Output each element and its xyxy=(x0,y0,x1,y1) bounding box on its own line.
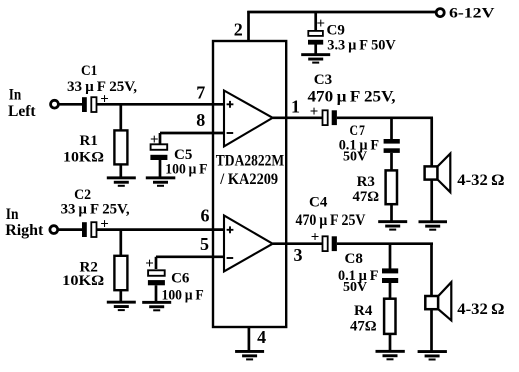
wire pin5 xyxy=(156,255,224,258)
label 47 ohm R3 xyxy=(353,189,380,205)
svg-text:47Ω: 47Ω xyxy=(350,319,377,335)
ground under R1 xyxy=(107,176,136,186)
wire C3 to speaker xyxy=(337,116,433,119)
label 4-32 ohm top xyxy=(457,172,504,189)
svg-text:Right: Right xyxy=(5,222,44,239)
wire C6 to ground xyxy=(155,285,158,301)
wire C1 to pin7 xyxy=(97,103,225,106)
wire R2 drop xyxy=(119,230,122,256)
svg-text:C9: C9 xyxy=(327,23,345,39)
label 47 ohm R4 xyxy=(350,319,377,335)
svg-text:R3: R3 xyxy=(357,174,375,190)
wire C8 drop xyxy=(389,244,392,269)
label 50V C7 xyxy=(343,150,367,165)
capacitor C1 xyxy=(82,91,109,112)
resistor R4 xyxy=(384,299,395,334)
label C7 xyxy=(350,123,366,139)
svg-text:470 µ F 25V,: 470 µ F 25V, xyxy=(308,89,396,106)
svg-text:C6: C6 xyxy=(171,271,190,287)
ground under top speaker xyxy=(419,220,448,230)
svg-text:5: 5 xyxy=(200,234,209,254)
resistor R3 xyxy=(386,170,397,204)
wire C2 to pin6 xyxy=(97,228,225,231)
wire C8 to R4 xyxy=(389,283,392,299)
ground under C9 xyxy=(301,53,330,63)
label R1 xyxy=(80,133,98,149)
svg-text:100 µ F: 100 µ F xyxy=(165,162,207,178)
wire R1 drop xyxy=(119,104,122,131)
svg-text:C8: C8 xyxy=(345,251,363,267)
wire pin4 xyxy=(248,327,251,350)
wire C9 top xyxy=(314,12,317,32)
capacitor C6 xyxy=(145,256,165,285)
label 100uF C5 xyxy=(165,162,207,178)
label 0.1uF C7 xyxy=(339,138,379,154)
wire power rail xyxy=(247,11,436,14)
wire C7 to R3 xyxy=(390,153,393,170)
label C6 xyxy=(171,271,190,287)
ground under C6 xyxy=(142,301,171,311)
wire C4 to speaker xyxy=(337,242,433,245)
wire R1 to ground xyxy=(119,164,122,177)
IC U1 TDA2822M box xyxy=(213,41,286,327)
label C2 xyxy=(74,187,91,203)
label C3 xyxy=(314,72,332,88)
svg-text:C5: C5 xyxy=(174,147,192,163)
label 3.3uF 50V xyxy=(327,38,396,54)
wire pin8 xyxy=(160,132,224,135)
pin label 5 xyxy=(200,234,209,254)
capacitor C2 xyxy=(82,216,109,237)
svg-text:8: 8 xyxy=(196,110,205,130)
wire R4 to ground xyxy=(389,335,392,351)
wire R3 to ground xyxy=(390,204,393,221)
svg-text:+: + xyxy=(310,104,319,120)
svg-text:50V: 50V xyxy=(343,150,367,165)
capacitor C4 xyxy=(311,229,337,251)
op-amp U1A top xyxy=(224,91,273,147)
pin label 8 xyxy=(196,110,205,130)
svg-text:10KΩ: 10KΩ xyxy=(63,149,104,165)
speaker LS1 xyxy=(425,154,451,193)
terminal input right xyxy=(50,226,58,234)
ground under C5 xyxy=(146,176,176,186)
capacitor C7 xyxy=(384,139,400,153)
label 10K ohm R1 xyxy=(63,149,104,165)
capacitor C8 xyxy=(382,268,398,283)
wire bottom speaker drop xyxy=(430,244,433,295)
label C8 xyxy=(345,251,363,267)
pin label 1 xyxy=(291,96,300,116)
wire C7 drop xyxy=(390,118,393,140)
svg-text:33 µ F 25V,: 33 µ F 25V, xyxy=(67,79,137,95)
svg-text:+: + xyxy=(311,229,320,245)
label 100uF C6 xyxy=(162,288,204,304)
resistor R2 xyxy=(114,256,127,290)
svg-text:R1: R1 xyxy=(80,133,98,149)
pin label 2 xyxy=(234,20,243,40)
wire pin3 out xyxy=(273,242,323,245)
label In Right xyxy=(5,206,44,239)
svg-text:Left: Left xyxy=(8,103,36,120)
pin label 6 xyxy=(201,206,210,226)
label 33uF 25V, xyxy=(67,79,137,95)
label 6-12V xyxy=(449,6,495,22)
wire top speaker drop xyxy=(430,118,433,166)
label C4 xyxy=(309,195,328,211)
wire top speaker to ground xyxy=(430,180,433,221)
speaker LS2 xyxy=(425,282,451,320)
wire pin2 vertical xyxy=(247,11,250,41)
pin label 4 xyxy=(257,327,266,347)
ground under R2 xyxy=(107,301,136,311)
svg-text:1: 1 xyxy=(291,96,300,116)
svg-text:6: 6 xyxy=(201,206,210,226)
label 0.1uF C8 xyxy=(338,268,378,284)
IC label / KA2209 xyxy=(219,171,278,188)
terminal 6-12V xyxy=(436,9,444,17)
label 470uF 25V, xyxy=(308,89,396,106)
wire input left to C1 xyxy=(58,103,82,106)
wire input right to C2 xyxy=(58,228,83,231)
svg-text:/ KA2209: / KA2209 xyxy=(219,171,278,188)
svg-text:C2: C2 xyxy=(74,187,91,203)
wire C6 drop xyxy=(155,257,158,269)
op-amp U1B bottom xyxy=(224,216,273,272)
label R3 xyxy=(357,174,375,190)
svg-text:C4: C4 xyxy=(309,195,328,211)
ground under R4 xyxy=(376,350,405,360)
label C1 xyxy=(81,63,97,79)
svg-text:470 µ F 25V: 470 µ F 25V xyxy=(296,212,366,229)
svg-text:10KΩ: 10KΩ xyxy=(62,273,104,289)
svg-text:6-12V: 6-12V xyxy=(449,6,495,22)
label 33uF 25V, bottom xyxy=(61,202,130,218)
label R4 xyxy=(354,303,373,319)
terminal input left xyxy=(51,100,59,108)
label C5 xyxy=(174,147,192,163)
capacitor C9 xyxy=(308,16,325,45)
capacitor C3 xyxy=(310,104,337,125)
ground under R3 xyxy=(378,220,407,230)
svg-text:2: 2 xyxy=(234,20,243,40)
svg-text:4: 4 xyxy=(257,327,266,347)
label 10K ohm R2 xyxy=(62,273,104,289)
svg-text:3: 3 xyxy=(294,245,303,265)
svg-text:R4: R4 xyxy=(354,303,373,319)
wire R2 to ground xyxy=(119,290,122,301)
label 4-32 ohm bottom xyxy=(457,301,504,318)
capacitor C5 xyxy=(150,132,167,160)
svg-text:7: 7 xyxy=(196,83,205,103)
wire pin1 out xyxy=(273,116,323,119)
wire C9 bottom xyxy=(314,44,317,54)
svg-text:+: + xyxy=(317,16,326,32)
label R2 xyxy=(80,260,98,276)
wire bottom speaker to ground xyxy=(430,309,433,351)
svg-text:C1: C1 xyxy=(81,63,97,79)
label 50V C8 xyxy=(343,280,367,295)
svg-text:33 µ F 25V,: 33 µ F 25V, xyxy=(61,202,130,218)
pin label 7 xyxy=(196,83,205,103)
ground under bottom speaker xyxy=(418,350,447,360)
svg-text:3.3 µ F 50V: 3.3 µ F 50V xyxy=(327,38,396,54)
svg-text:In: In xyxy=(6,206,19,223)
pin label 3 xyxy=(294,245,303,265)
wire C5 to ground xyxy=(159,160,162,177)
svg-text:4-32 Ω: 4-32 Ω xyxy=(457,301,504,318)
svg-text:C3: C3 xyxy=(314,72,332,88)
svg-text:In: In xyxy=(9,87,22,104)
IC label TDA2822M xyxy=(216,153,284,170)
resistor R1 xyxy=(114,130,127,164)
label 470uF 25V C4 xyxy=(296,212,366,229)
ground under pin4 xyxy=(235,350,264,360)
svg-text:TDA2822M: TDA2822M xyxy=(216,153,284,170)
svg-text:50V: 50V xyxy=(343,280,367,295)
label In Left xyxy=(8,87,36,120)
svg-text:4-32 Ω: 4-32 Ω xyxy=(457,172,504,189)
svg-text:47Ω: 47Ω xyxy=(353,189,380,205)
label C9 xyxy=(327,23,345,39)
wire C5 drop xyxy=(159,133,162,145)
